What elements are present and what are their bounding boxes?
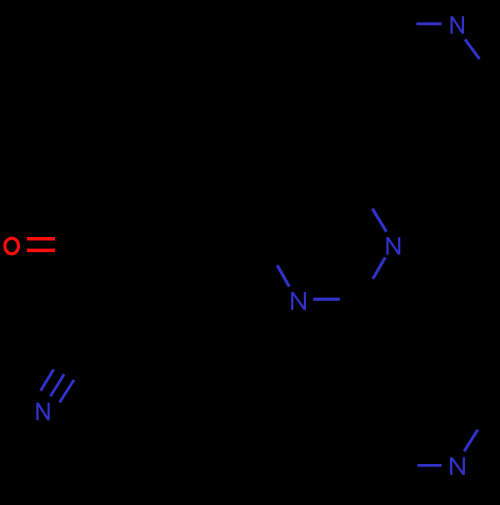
pyridine N (bottom right) (451, 457, 464, 475)
nitrile atom N (bottom left) (37, 403, 48, 421)
bond N1-C (up-left half) (277, 265, 289, 287)
central amidine N2 (upper-right N of center) (388, 237, 400, 254)
pyridine N (top right) (452, 16, 463, 34)
bond N-C diagonal half (bottom right) (464, 430, 478, 452)
bond C-N2 (upper diagonal half) (372, 209, 386, 232)
bond N1-C2 (horizontal half) (313, 298, 340, 301)
double bond C=O (red halves) (27, 239, 55, 251)
triple bond C#N (blue halves) (41, 369, 75, 402)
bond C-N horizontal half (top right) (416, 22, 441, 25)
atom O (ketone oxygen, left) (5, 238, 19, 254)
bond N2-C2 (lower diagonal half) (373, 257, 386, 279)
bond N-C diagonal half (top right) (465, 39, 479, 59)
bond C-N horizontal half (bottom right) (418, 464, 442, 467)
central amidine N1 (lower-left N of center) (292, 292, 305, 310)
